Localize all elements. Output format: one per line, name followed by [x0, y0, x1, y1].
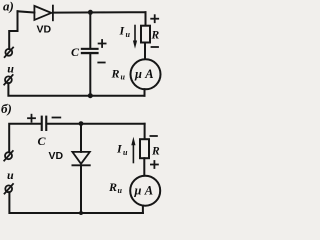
- svg-text:μ: μ: [134, 67, 142, 81]
- svg-text:и: и: [123, 148, 128, 157]
- wire capacitor branch lower (circuit a): [89, 54, 91, 95]
- label Rи (circuit b): [108, 180, 123, 195]
- wire diode branch upper (circuit b): [80, 124, 82, 152]
- svg-text:A: A: [144, 184, 153, 198]
- wire top middle segment (circuit b): [47, 123, 144, 125]
- label µA inside meter (circuit b): [134, 184, 154, 198]
- svg-text:C: C: [71, 45, 80, 59]
- wire top-left (circuit b): [9, 124, 41, 153]
- terminal upper (circuit a): [5, 48, 14, 58]
- terminal upper (circuit b): [4, 151, 13, 161]
- label + below resistor (circuit b): [151, 161, 158, 168]
- wire top anode segment (circuit a): [18, 11, 35, 12]
- wire bottom (circuit a): [8, 83, 144, 96]
- wire meter to bottom (circuit b): [142, 206, 144, 213]
- label µA inside meter (circuit a): [134, 67, 154, 81]
- svg-text:R: R: [151, 30, 160, 42]
- terminal lower (circuit b): [5, 184, 14, 194]
- wire right branch upper (circuit a): [145, 12, 147, 26]
- svg-text:VD: VD: [37, 24, 52, 36]
- junction dot top of capacitor branch: [88, 10, 93, 15]
- svg-text:R: R: [111, 67, 120, 81]
- svg-text:и: и: [126, 30, 131, 39]
- wire top right segment (circuit a): [53, 11, 146, 13]
- label minus below resistor (circuit a): [152, 46, 159, 48]
- resistor R (circuit b): [140, 139, 149, 158]
- junction dot top of diode branch (circuit b): [79, 121, 84, 126]
- label Rи (circuit a): [111, 67, 126, 82]
- svg-text:u: u: [7, 168, 14, 182]
- label Iи (circuit b): [116, 142, 128, 157]
- current arrow Iи upward (circuit b): [131, 137, 135, 163]
- svg-text:C: C: [38, 134, 47, 148]
- svg-text:а): а): [3, 0, 14, 14]
- label + of capacitor (circuit a): [99, 40, 106, 47]
- meter microammeter (circuit b): [130, 176, 160, 206]
- svg-text:u: u: [7, 62, 14, 76]
- junction dot bottom of diode branch (circuit b): [79, 211, 83, 215]
- svg-text:μ: μ: [134, 184, 142, 198]
- capacitor C plates (circuit a): [81, 48, 99, 54]
- label minus of capacitor (circuit b): [53, 117, 61, 119]
- label + of capacitor (circuit b): [28, 115, 35, 122]
- svg-text:б): б): [1, 101, 12, 116]
- wire diode branch lower (circuit b): [80, 165, 82, 213]
- svg-text:R: R: [108, 180, 117, 194]
- diode VD (circuit a): [34, 6, 53, 21]
- label minus above resistor (circuit b): [150, 135, 157, 137]
- wire bottom (circuit b): [9, 192, 143, 213]
- current arrow Iи downward (circuit a): [133, 26, 137, 49]
- label + above resistor (circuit a): [151, 15, 158, 22]
- svg-text:и: и: [118, 186, 123, 195]
- wire meter to bottom (circuit a): [144, 89, 146, 96]
- meter microammeter (circuit a): [131, 59, 161, 89]
- capacitor C plates (circuit b): [41, 116, 48, 131]
- svg-text:и: и: [121, 73, 126, 82]
- svg-text:VD: VD: [49, 150, 64, 162]
- junction dot bottom of capacitor branch: [88, 93, 93, 98]
- label Iи (circuit a): [119, 24, 131, 39]
- resistor R (circuit a): [141, 26, 150, 43]
- wire capacitor branch upper (circuit a): [89, 12, 91, 48]
- wire right branch upper (circuit b): [144, 124, 146, 139]
- wire resistor to meter (circuit a): [144, 43, 146, 60]
- wire resistor to meter (circuit b): [143, 158, 145, 176]
- svg-text:A: A: [144, 67, 153, 81]
- wire top-left jog (circuit a): [9, 11, 17, 49]
- svg-text:R: R: [151, 146, 160, 158]
- diode VD vertical (circuit b): [72, 152, 89, 165]
- terminal lower (circuit a): [4, 75, 13, 85]
- label minus of capacitor (circuit a): [98, 62, 104, 64]
